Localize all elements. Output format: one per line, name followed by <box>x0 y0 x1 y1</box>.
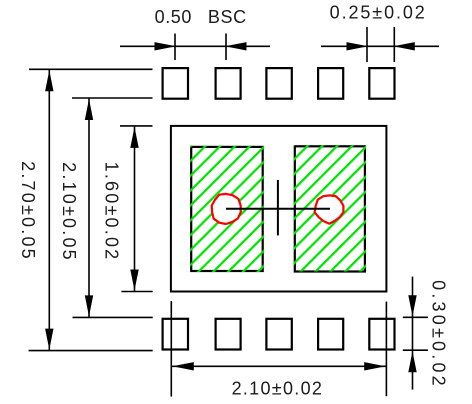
dim 0.50 BSC: right arrow <box>225 42 247 50</box>
center horizontal line between via centers <box>226 208 330 210</box>
svg-text:2.10±0.05: 2.10±0.05 <box>59 162 79 262</box>
dim 2.10±0.05: dimension line <box>88 98 90 317</box>
dim 2.10±0.02 bottom: left extension line <box>170 301 172 397</box>
dim 2.70±0.05: down arrow <box>45 329 53 350</box>
dim 1.60±0.02: down arrow <box>130 270 138 291</box>
svg-text:2.10±0.02: 2.10±0.02 <box>232 379 324 399</box>
dim 0.25±0.02: right arrow <box>393 42 415 50</box>
top pad row: pad T1 <box>163 68 188 99</box>
svg-text:0.30±0.02: 0.30±0.02 <box>429 280 449 389</box>
top pad T4 <box>318 68 343 99</box>
bottom pad row: pad B1 <box>163 319 188 350</box>
left exposed pad (hatched) border <box>191 147 263 271</box>
dim 0.30±0.02 right: top tick <box>403 316 428 318</box>
dim 0.30±0.02 right: bottom tick <box>403 349 428 351</box>
bottom pad B4 <box>318 319 343 350</box>
dim 2.10±0.05: top extension line <box>72 97 153 99</box>
dim 0.50 BSC: left arrow <box>155 42 177 50</box>
svg-text:0.50: 0.50 <box>155 7 192 27</box>
dim 2.70±0.05: bottom extension line <box>29 350 153 352</box>
right thermal via circle <box>315 195 344 223</box>
svg-text:0.25±0.02: 0.25±0.02 <box>330 3 427 23</box>
dim 2.70±0.05: top extension line <box>29 68 153 70</box>
top pad T2 <box>216 68 241 99</box>
dim 0.25±0.02: dimension line <box>321 45 439 47</box>
dim 1.60±0.02: top extension line <box>120 125 153 127</box>
dim 0.25±0.02: left tick <box>366 27 368 62</box>
bottom pad B5 <box>369 319 394 350</box>
dim 1.60±0.02: up arrow <box>130 127 138 148</box>
top pad T5 <box>369 68 394 99</box>
top pad T3 <box>266 68 291 99</box>
bottom pad B3 <box>266 319 291 350</box>
dim 2.10±0.02 bottom: right arrow <box>364 362 386 370</box>
dim 0.50 BSC: right tick <box>225 34 227 61</box>
left thermal via circle <box>212 194 241 224</box>
svg-text:BSC: BSC <box>208 7 247 27</box>
package body outline <box>171 126 387 292</box>
dim 2.10±0.02 bottom: right extension line <box>385 302 387 397</box>
dim 2.70±0.05: dimension line <box>48 69 50 350</box>
dim 0.25±0.02: right tick <box>393 27 395 62</box>
dim 2.10±0.05: up arrow <box>85 99 93 120</box>
right exposed pad (hatched) border <box>295 146 365 271</box>
dim 0.50 BSC: left tick <box>174 34 176 61</box>
dim 0.30±0.02 right: down arrow <box>408 295 416 316</box>
dim 0.30±0.02 right: dimension line <box>412 277 414 390</box>
center vertical line <box>277 180 279 235</box>
dim 2.10±0.02 bottom: left arrow <box>172 362 194 370</box>
dim 2.10±0.05: bottom extension line <box>73 316 153 318</box>
left exposed pad hatch fill <box>190 146 264 272</box>
dim 0.30±0.02 right: up arrow <box>408 351 416 372</box>
dim 0.50 BSC: dimension line <box>120 45 270 47</box>
svg-text:2.70±0.05: 2.70±0.05 <box>18 161 38 261</box>
dim 2.70±0.05: up arrow <box>45 70 53 91</box>
dim 1.60±0.02: dimension line <box>134 126 136 292</box>
dim 1.60±0.02: bottom extension line <box>121 291 152 293</box>
dim 0.25±0.02: left arrow <box>347 42 369 50</box>
dim 2.10±0.05: down arrow <box>85 295 93 316</box>
svg-text:1.60±0.02: 1.60±0.02 <box>102 162 122 262</box>
right exposed pad hatch fill <box>294 145 366 271</box>
dim 2.10±0.02 bottom: dimension line <box>172 365 386 367</box>
bottom pad B2 <box>216 319 241 350</box>
